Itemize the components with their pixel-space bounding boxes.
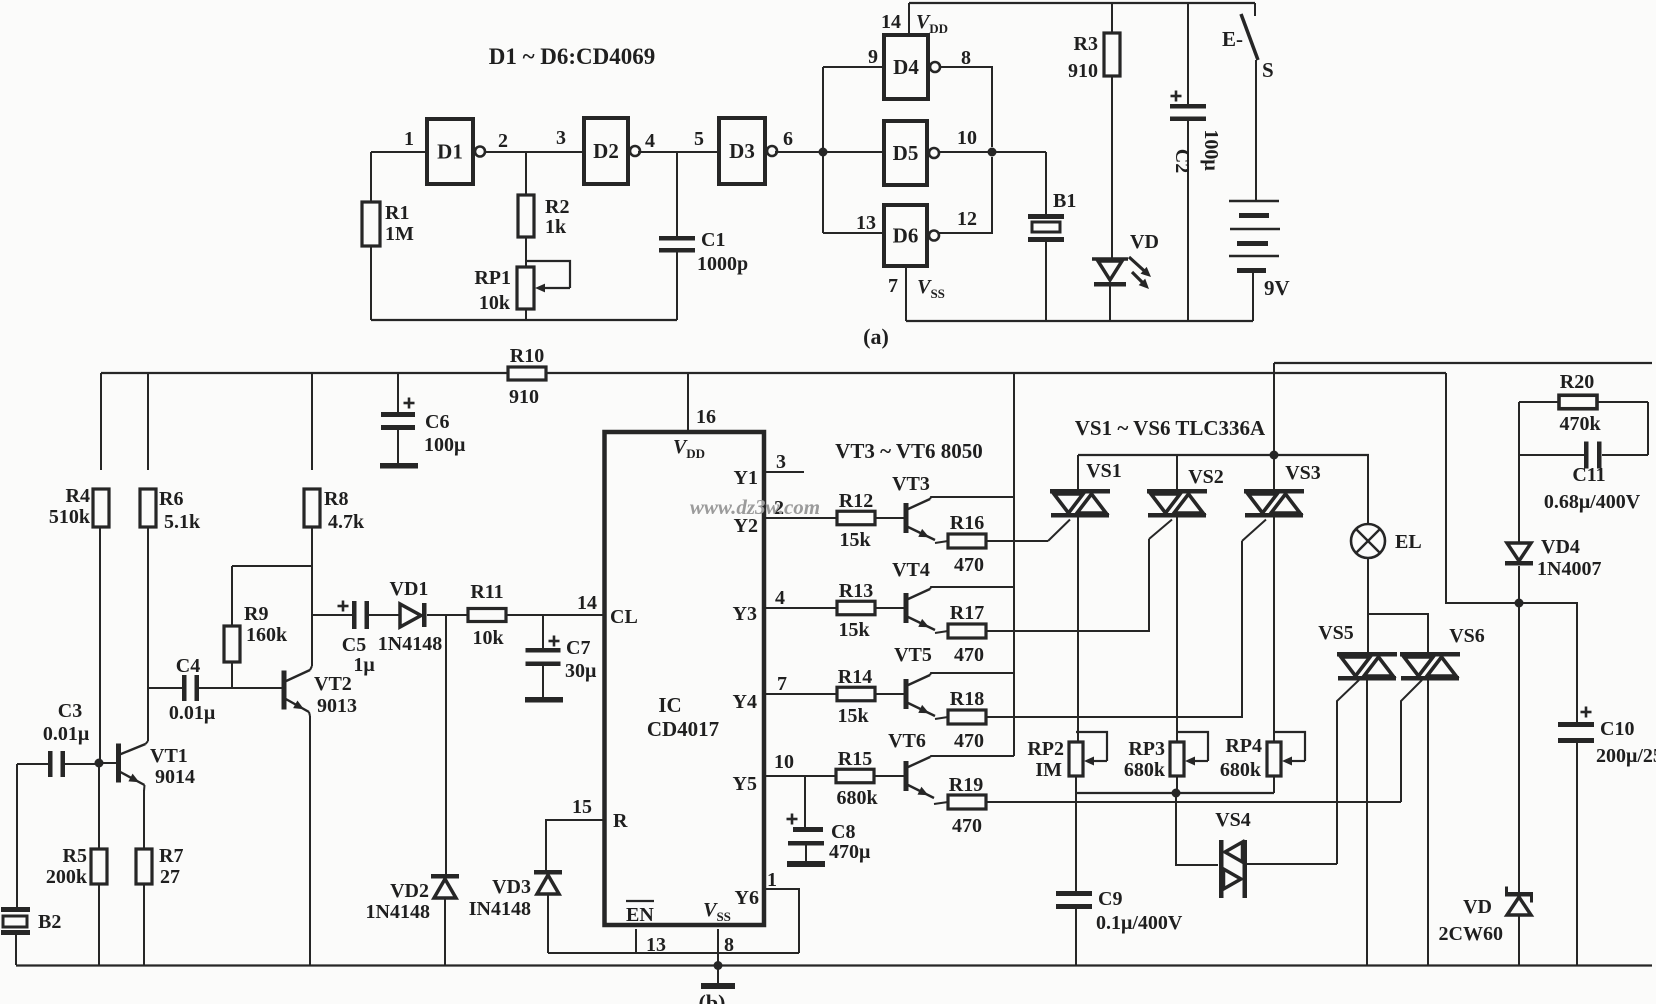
label R14 15k bbox=[837, 666, 872, 727]
svg-text:EL: EL bbox=[1395, 531, 1422, 553]
svg-text:14: 14 bbox=[881, 11, 901, 33]
wire Y6 pin 1 bbox=[766, 889, 799, 953]
node pin 1 label bbox=[404, 128, 414, 150]
wire R19 to VS6 gate bbox=[986, 801, 1401, 803]
svg-text:R7: R7 bbox=[159, 845, 183, 867]
svg-text:VS2: VS2 bbox=[1188, 466, 1224, 488]
wire VS6 gate to R19 line bbox=[1401, 680, 1422, 802]
svg-text:(a): (a) bbox=[863, 324, 889, 349]
label VS1 bbox=[1086, 460, 1122, 482]
label C3 0.01u bbox=[43, 700, 90, 745]
label (b) bbox=[699, 990, 726, 1004]
diode VD3 bbox=[534, 870, 562, 953]
svg-text:160k: 160k bbox=[246, 624, 288, 646]
svg-text:RP2: RP2 bbox=[1027, 738, 1064, 760]
svg-text:R11: R11 bbox=[470, 581, 503, 603]
resistor R6 bbox=[140, 373, 156, 741]
svg-text:680k: 680k bbox=[1220, 759, 1262, 781]
wire to buzzer B1 bbox=[1045, 152, 1047, 214]
svg-text:4.7k: 4.7k bbox=[328, 511, 365, 533]
svg-text:27: 27 bbox=[160, 866, 180, 888]
node pin 2 label bbox=[498, 130, 508, 152]
label VS5 bbox=[1318, 622, 1354, 644]
svg-text:15: 15 bbox=[572, 796, 592, 818]
label R3 910 bbox=[1068, 33, 1098, 82]
svg-text:VD1: VD1 bbox=[390, 578, 429, 600]
svg-text:910: 910 bbox=[509, 386, 539, 408]
inverter D1 bbox=[427, 119, 485, 184]
label R inside bbox=[613, 810, 628, 832]
wire VD1 to R11 bbox=[427, 614, 469, 616]
wire VD3 to EN line bbox=[548, 952, 799, 954]
wire rail2 down to VD4 node bbox=[1446, 373, 1519, 603]
wire Y2 pin 2 to R12 bbox=[766, 517, 838, 519]
wire reset pin 15 to VD3 bbox=[546, 820, 603, 870]
triac VS2 bbox=[1147, 455, 1207, 742]
label C11 bbox=[1572, 464, 1605, 486]
potentiometer RP3 bbox=[1170, 732, 1208, 776]
wire pin 7 VSS stub bbox=[905, 266, 907, 321]
label C10 200u/25V bbox=[1596, 718, 1656, 767]
svg-text:VD2: VD2 bbox=[390, 880, 429, 902]
svg-text:B1: B1 bbox=[1053, 190, 1076, 212]
svg-text:680k: 680k bbox=[836, 787, 878, 809]
svg-text:EN: EN bbox=[626, 904, 654, 926]
buzzer B1 bbox=[1028, 214, 1064, 321]
potentiometer RP2 bbox=[1069, 732, 1107, 776]
resistor R14 bbox=[837, 687, 875, 701]
node junction anode bus at VS3 bbox=[1270, 451, 1279, 460]
wire R16 to VS1 gate bbox=[986, 520, 1070, 542]
label R6 5.1k bbox=[159, 488, 201, 533]
label VT3~VT6 8050 bbox=[835, 439, 983, 463]
svg-text:RP1: RP1 bbox=[474, 267, 511, 289]
wire VT2 collector bbox=[310, 615, 312, 670]
label VT6 bbox=[888, 730, 926, 752]
svg-text:VS4: VS4 bbox=[1215, 809, 1251, 831]
label R15 680k bbox=[836, 748, 878, 809]
svg-text:D1: D1 bbox=[437, 140, 463, 164]
svg-text:R10: R10 bbox=[510, 345, 544, 367]
resistor R13 bbox=[837, 601, 875, 615]
resistor R1 bbox=[362, 202, 380, 320]
wire D3 output to node bbox=[775, 151, 884, 153]
svg-text:R2: R2 bbox=[545, 196, 569, 218]
svg-text:VT6: VT6 bbox=[888, 730, 926, 752]
transistor VT2 bbox=[282, 670, 311, 712]
label S bbox=[1262, 58, 1274, 82]
svg-text:1: 1 bbox=[404, 128, 414, 150]
capacitor C11 bbox=[1519, 402, 1648, 543]
svg-text:E-: E- bbox=[1222, 27, 1243, 51]
node pin 15 label bbox=[572, 796, 592, 818]
svg-text:10k: 10k bbox=[479, 292, 511, 314]
transistor VT6 bbox=[874, 757, 934, 798]
wire VDD bus vertical bbox=[1013, 373, 1015, 756]
label (a) bbox=[863, 324, 889, 349]
svg-text:R12: R12 bbox=[839, 490, 873, 512]
svg-text:R16: R16 bbox=[950, 512, 984, 534]
node junction at pin 8 ground bbox=[714, 961, 723, 970]
label VT4 bbox=[892, 559, 930, 581]
label VS1~VS6 TLC336A bbox=[1075, 416, 1266, 440]
wire pin 14 VDD stub bbox=[908, 3, 910, 35]
capacitor C10 bbox=[1558, 722, 1594, 965]
wire node to C10 bbox=[1519, 603, 1577, 722]
svg-text:C9: C9 bbox=[1098, 888, 1122, 910]
svg-text:R19: R19 bbox=[949, 774, 983, 796]
node pin 8 label bbox=[724, 934, 734, 956]
wire Y4 pin 7 to R14 bbox=[766, 693, 838, 695]
label RP3 680k bbox=[1124, 738, 1166, 781]
label IC CD4017 bbox=[647, 693, 719, 741]
label RP1 10k bbox=[474, 267, 511, 314]
label C11 value bbox=[1544, 491, 1641, 513]
label VSS bbox=[917, 276, 945, 301]
LED VD bbox=[1092, 257, 1151, 321]
svg-text:680k: 680k bbox=[1124, 759, 1166, 781]
svg-text:1N4148: 1N4148 bbox=[366, 901, 430, 923]
node pin 4 label bbox=[775, 587, 785, 609]
switch S bbox=[1241, 3, 1258, 200]
svg-text:R18: R18 bbox=[950, 688, 984, 710]
svg-text:8: 8 bbox=[724, 934, 734, 956]
resistor R12 bbox=[837, 511, 875, 525]
microphone B2 bbox=[1, 764, 30, 965]
svg-text:13: 13 bbox=[856, 212, 876, 234]
label R4 510k bbox=[49, 485, 91, 528]
svg-text:C7: C7 bbox=[566, 637, 590, 659]
resistor R11 bbox=[468, 609, 506, 622]
label R20 470k bbox=[1559, 371, 1601, 435]
svg-text:6: 6 bbox=[783, 128, 793, 150]
svg-text:R15: R15 bbox=[838, 748, 872, 770]
label 9V bbox=[1264, 276, 1290, 300]
wire EL node to VS6 bbox=[1368, 614, 1428, 652]
label VS6 bbox=[1449, 625, 1485, 647]
svg-text:R13: R13 bbox=[839, 580, 873, 602]
resistor R8 bbox=[304, 373, 320, 666]
svg-text:Y3: Y3 bbox=[733, 603, 757, 625]
label C10 plus bbox=[1581, 707, 1592, 718]
wire top rail 1 of circuit (b) bbox=[1274, 362, 1652, 364]
inverter D4 bbox=[884, 35, 940, 99]
svg-text:RP4: RP4 bbox=[1225, 735, 1262, 757]
capacitor C6 bbox=[380, 373, 418, 469]
triac VS5 bbox=[1337, 652, 1397, 965]
svg-text:D6: D6 bbox=[893, 224, 919, 248]
node pin 1 label bbox=[767, 869, 777, 891]
wire VS5 gate to VS4 bbox=[1337, 680, 1359, 864]
svg-text:1N4007: 1N4007 bbox=[1537, 558, 1601, 580]
wire pot bottom bus bbox=[1076, 776, 1274, 891]
label R5 200k bbox=[46, 845, 88, 888]
label CL inside bbox=[610, 606, 638, 628]
label VS3 bbox=[1285, 462, 1321, 484]
label EN inside bbox=[626, 901, 654, 926]
svg-text:VD: VD bbox=[1463, 896, 1492, 918]
wire C5 to VD1 bbox=[369, 614, 400, 616]
diode VD4 bbox=[1505, 543, 1533, 603]
svg-text:IM: IM bbox=[1035, 759, 1062, 781]
resistor R2 bbox=[518, 152, 534, 267]
node pin 14 label bbox=[577, 592, 597, 614]
svg-text:C4: C4 bbox=[176, 655, 200, 677]
label VD2 1N4148 bbox=[366, 880, 430, 923]
label R10 910 bbox=[509, 345, 544, 408]
transistor VT1 bbox=[99, 744, 146, 786]
inverter D3 bbox=[719, 118, 777, 184]
svg-text:VS3: VS3 bbox=[1285, 462, 1321, 484]
svg-text:7: 7 bbox=[888, 275, 898, 297]
label C7 plus bbox=[549, 636, 560, 647]
resistor R16 bbox=[935, 534, 986, 548]
svg-text:VS6: VS6 bbox=[1449, 625, 1485, 647]
svg-text:470: 470 bbox=[952, 815, 982, 837]
svg-text:470: 470 bbox=[954, 730, 984, 752]
svg-text:D2: D2 bbox=[593, 139, 619, 163]
svg-text:200μ/25V: 200μ/25V bbox=[1596, 745, 1656, 767]
node pin 10 label bbox=[957, 127, 977, 149]
label Y3 inside bbox=[733, 603, 757, 625]
svg-text:15k: 15k bbox=[839, 529, 871, 551]
svg-text:VD4: VD4 bbox=[1541, 536, 1580, 558]
inverter D2 bbox=[584, 118, 640, 184]
node pin 4 label bbox=[645, 130, 655, 152]
wire Y3 pin 4 to R13 bbox=[766, 607, 838, 609]
node pin 9 label bbox=[868, 46, 878, 68]
label VT5 bbox=[894, 644, 932, 666]
svg-text:Y4: Y4 bbox=[733, 691, 757, 713]
wire D1 input pin 1 bbox=[371, 152, 427, 202]
svg-text:4: 4 bbox=[645, 130, 655, 152]
wire bottom rail of circuit (b) bbox=[16, 964, 1652, 966]
resistor R4 bbox=[93, 373, 109, 763]
label C2 bbox=[1171, 149, 1193, 173]
node junction at pin 10 bbox=[988, 148, 997, 157]
capacitor C9 bbox=[1056, 891, 1092, 965]
svg-text:VT3 ~ VT6 8050: VT3 ~ VT6 8050 bbox=[835, 439, 983, 463]
node pin 2 label bbox=[774, 497, 784, 519]
label RP2 1M bbox=[1027, 738, 1064, 781]
label R7 27 bbox=[159, 845, 183, 888]
svg-text:12: 12 bbox=[957, 208, 977, 230]
label EL bbox=[1395, 531, 1422, 553]
inverter D5 bbox=[884, 121, 939, 185]
resistor R5 bbox=[91, 763, 107, 965]
node pin 6 label bbox=[783, 128, 793, 150]
node pin 8 label bbox=[961, 47, 971, 69]
svg-text:R3: R3 bbox=[1074, 33, 1098, 55]
label VD1 1N4148 bbox=[378, 578, 442, 655]
label R8 4.7k bbox=[324, 488, 365, 533]
svg-text:R20: R20 bbox=[1560, 371, 1594, 393]
label E- bbox=[1222, 27, 1243, 51]
wire to D4 pin 9 bbox=[823, 66, 884, 68]
label R12 15k bbox=[839, 490, 873, 551]
diode VD1 bbox=[400, 603, 427, 627]
svg-text:1N4148: 1N4148 bbox=[378, 633, 442, 655]
svg-text:5.1k: 5.1k bbox=[164, 511, 201, 533]
svg-text:0.68μ/400V: 0.68μ/400V bbox=[1544, 491, 1641, 513]
node junction at D3 output bbox=[819, 148, 828, 157]
node pin 3 label bbox=[776, 451, 786, 473]
wire rail1 down to VS3 bbox=[1273, 363, 1275, 455]
capacitor C3 bbox=[17, 751, 99, 777]
label VS4 bbox=[1215, 809, 1251, 831]
svg-text:16: 16 bbox=[696, 406, 716, 428]
label B1 bbox=[1053, 190, 1076, 212]
svg-text:1000p: 1000p bbox=[697, 253, 748, 275]
svg-text:VT4: VT4 bbox=[892, 559, 930, 581]
triac VS6 bbox=[1400, 652, 1460, 965]
svg-text:R: R bbox=[613, 810, 628, 832]
svg-text:470: 470 bbox=[954, 554, 984, 576]
svg-text:VT5: VT5 bbox=[894, 644, 932, 666]
potentiometer RP1 bbox=[517, 261, 570, 320]
label C6 plus bbox=[404, 398, 415, 409]
IC U1 CD4017 box bbox=[605, 432, 765, 925]
node junction VT1 base bbox=[95, 759, 104, 768]
resistor R3 bbox=[1104, 3, 1120, 258]
svg-text:VD: VD bbox=[1130, 231, 1159, 253]
svg-text:R14: R14 bbox=[838, 666, 872, 688]
svg-text:C8: C8 bbox=[831, 821, 855, 843]
triac VS3 bbox=[1244, 455, 1304, 742]
wire VT4 collector to bus bbox=[930, 587, 1014, 589]
svg-text:1μ: 1μ bbox=[353, 654, 375, 676]
svg-text:1: 1 bbox=[767, 869, 777, 891]
svg-text:D1 ~ D6:CD4069: D1 ~ D6:CD4069 bbox=[489, 44, 656, 69]
wire VT2 emitter bbox=[309, 712, 310, 965]
resistor R7 bbox=[136, 790, 152, 965]
node pin 7 label bbox=[777, 673, 787, 695]
label RP4 680k bbox=[1220, 735, 1262, 781]
label VD3 IN4148 bbox=[469, 876, 531, 920]
svg-text:R17: R17 bbox=[950, 602, 984, 624]
potentiometer RP4 bbox=[1267, 732, 1305, 776]
triac VS4 bbox=[1219, 840, 1337, 898]
node junction RP3 bottom bbox=[1172, 789, 1181, 798]
svg-text:VD3: VD3 bbox=[492, 876, 531, 898]
wire pin 16 stub bbox=[687, 373, 689, 432]
diode VD2 bbox=[431, 615, 459, 965]
wire RP3 node down to VS4 bbox=[1176, 793, 1218, 865]
label Y5 inside bbox=[733, 773, 757, 795]
svg-text:R6: R6 bbox=[159, 488, 183, 510]
node junction at VD4 cathode bbox=[1515, 599, 1524, 608]
node pin 13 label bbox=[856, 212, 876, 234]
wire collector to C5 bbox=[312, 614, 352, 616]
label R17 470 bbox=[950, 602, 984, 666]
label C2 100u bbox=[1200, 129, 1222, 171]
svg-text:100μ: 100μ bbox=[1200, 129, 1222, 171]
svg-text:IN4148: IN4148 bbox=[469, 898, 531, 920]
svg-text:8: 8 bbox=[961, 47, 971, 69]
svg-text:www.dz3w.com: www.dz3w.com bbox=[690, 495, 820, 519]
svg-text:10: 10 bbox=[957, 127, 977, 149]
svg-text:S: S bbox=[1262, 58, 1274, 82]
label C5 plus bbox=[338, 601, 349, 612]
label VT2 9013 bbox=[314, 673, 357, 717]
wire R18 to VS3 gate bbox=[986, 520, 1266, 718]
wire pin 3 stub bbox=[766, 471, 804, 473]
label B2 bbox=[38, 911, 61, 933]
resistor R20 bbox=[1519, 395, 1648, 409]
svg-text:4: 4 bbox=[775, 587, 785, 609]
label C8 470u bbox=[829, 821, 871, 863]
label Y4 inside bbox=[733, 691, 757, 713]
wire R11 to CL pin 14 bbox=[506, 614, 603, 616]
svg-text:9014: 9014 bbox=[155, 766, 195, 788]
svg-text:3: 3 bbox=[776, 451, 786, 473]
wire VT1 collector bbox=[146, 741, 149, 744]
svg-text:C10: C10 bbox=[1600, 718, 1634, 740]
wire feedback branch vertical bbox=[822, 67, 824, 233]
svg-text:Y1: Y1 bbox=[734, 467, 758, 489]
svg-text:14: 14 bbox=[577, 592, 597, 614]
svg-text:9013: 9013 bbox=[317, 695, 357, 717]
label VS2 bbox=[1188, 466, 1224, 488]
wire bottom-left rail of circuit (a) bbox=[371, 319, 677, 321]
svg-text:D3: D3 bbox=[729, 139, 755, 163]
wire bottom-right rail of circuit (a) bbox=[906, 320, 1253, 322]
label C4 0.01u bbox=[169, 655, 216, 724]
svg-text:R5: R5 bbox=[63, 845, 87, 867]
transistor VT4 bbox=[875, 589, 935, 630]
svg-text:VT2: VT2 bbox=[314, 673, 352, 695]
label R13 15k bbox=[838, 580, 873, 641]
label C7 30u bbox=[565, 637, 597, 682]
svg-text:VT3: VT3 bbox=[892, 473, 930, 495]
svg-text:2CW60: 2CW60 bbox=[1439, 923, 1503, 945]
capacitor C7 bbox=[525, 615, 563, 703]
label VD bbox=[1130, 231, 1159, 253]
svg-text:470μ: 470μ bbox=[829, 841, 871, 863]
node pin 12 label bbox=[957, 208, 977, 230]
wire D5 output pin 10 bbox=[938, 151, 1046, 153]
capacitor C2 bbox=[1170, 3, 1206, 322]
label VDD bbox=[916, 11, 948, 36]
label R16 470 bbox=[950, 512, 984, 576]
label Y2 inside bbox=[734, 515, 758, 537]
node pin 3 label bbox=[556, 127, 566, 149]
node pin 14 label bbox=[881, 11, 901, 33]
svg-text:7: 7 bbox=[777, 673, 787, 695]
capacitor C8 bbox=[787, 776, 825, 867]
svg-text:0.01μ: 0.01μ bbox=[43, 723, 90, 745]
wire top rail of circuit (a) bbox=[909, 2, 1255, 4]
svg-text:C3: C3 bbox=[58, 700, 82, 722]
svg-text:9: 9 bbox=[868, 46, 878, 68]
svg-text:C5: C5 bbox=[342, 634, 366, 656]
node pin 5 label bbox=[694, 128, 704, 150]
capacitor C4 bbox=[148, 675, 282, 701]
label C6 100u bbox=[424, 411, 466, 456]
svg-text:C2: C2 bbox=[1171, 149, 1193, 173]
svg-text:R8: R8 bbox=[324, 488, 348, 510]
label VDD inside bbox=[673, 436, 705, 461]
capacitor C1 bbox=[659, 152, 695, 320]
wire VT6 collector to bus bbox=[930, 756, 1014, 757]
svg-text:470k: 470k bbox=[1559, 413, 1601, 435]
wire node down to zener bbox=[1518, 603, 1520, 892]
svg-text:0.1μ/400V: 0.1μ/400V bbox=[1096, 912, 1183, 934]
svg-text:13: 13 bbox=[646, 934, 666, 956]
svg-text:CL: CL bbox=[610, 606, 638, 628]
svg-text:30μ: 30μ bbox=[565, 660, 597, 682]
label VSS inside bbox=[703, 899, 731, 924]
